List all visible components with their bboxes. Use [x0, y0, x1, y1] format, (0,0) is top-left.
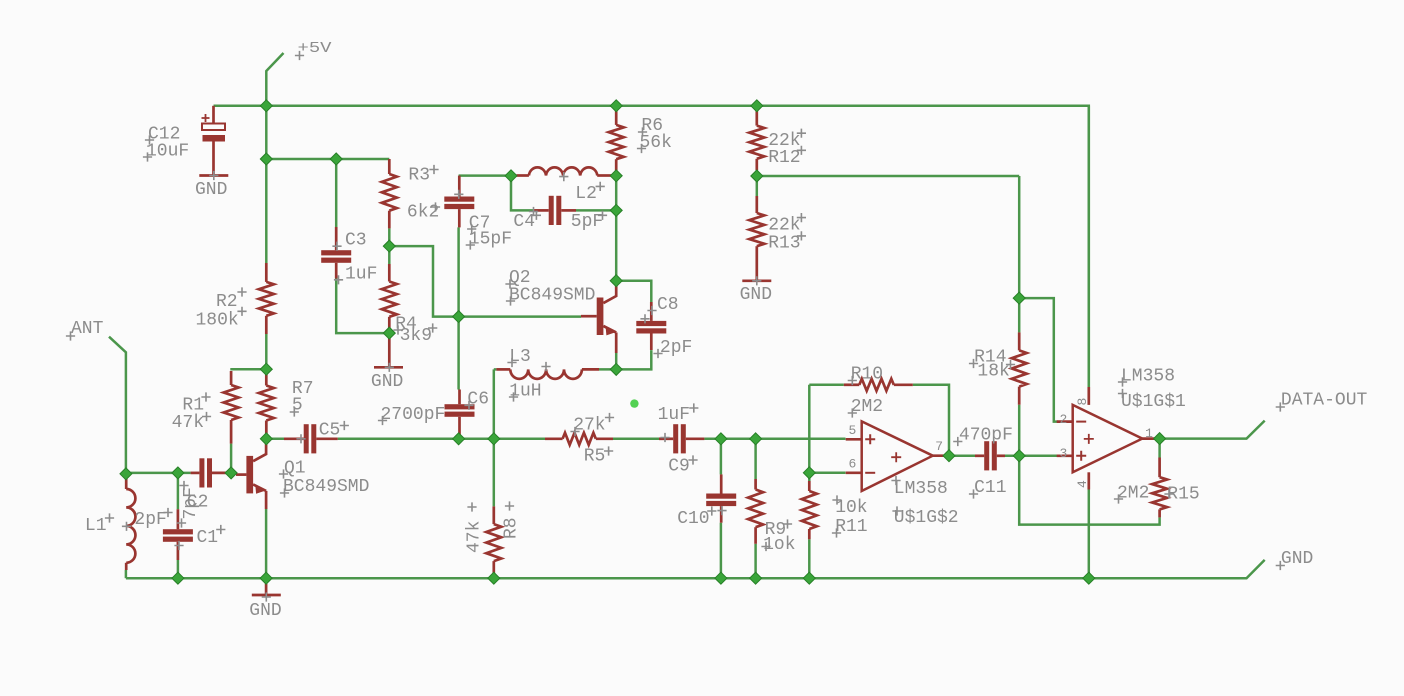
svg-text:Q1: Q1 — [284, 458, 306, 478]
svg-text:6k2: 6k2 — [407, 203, 439, 223]
svg-text:470pF: 470pF — [959, 426, 1013, 446]
svg-text:3: 3 — [1060, 446, 1068, 461]
svg-text:8: 8 — [1075, 398, 1090, 406]
svg-text:R13: R13 — [768, 234, 800, 254]
svg-text:C10: C10 — [677, 509, 709, 529]
svg-text:56k: 56k — [640, 133, 672, 153]
svg-text:47k: 47k — [464, 521, 484, 553]
svg-text:1uF: 1uF — [658, 405, 690, 425]
svg-text:27k: 27k — [573, 416, 605, 436]
svg-text:L2: L2 — [575, 184, 597, 204]
svg-text:47k: 47k — [172, 413, 204, 433]
svg-text:2: 2 — [1060, 412, 1068, 427]
svg-text:R3: R3 — [408, 166, 430, 186]
svg-text:22k: 22k — [768, 216, 800, 236]
svg-text:7: 7 — [935, 439, 943, 454]
svg-text:10uF: 10uF — [146, 142, 189, 162]
svg-text:18k: 18k — [977, 362, 1009, 382]
svg-text:C9: C9 — [668, 457, 690, 477]
svg-text:U$1G$2: U$1G$2 — [894, 508, 959, 528]
svg-text:10k: 10k — [835, 498, 867, 518]
svg-text:15pF: 15pF — [469, 229, 512, 249]
svg-text:R11: R11 — [835, 517, 867, 537]
svg-text:2700pF: 2700pF — [381, 405, 446, 425]
svg-text:C4: C4 — [513, 212, 535, 232]
svg-text:+5V: +5V — [298, 40, 332, 57]
svg-text:GND: GND — [195, 180, 227, 200]
svg-text:C8: C8 — [657, 295, 679, 315]
svg-text:C6: C6 — [467, 390, 489, 410]
svg-text:LM358: LM358 — [1121, 367, 1175, 387]
svg-text:1uF: 1uF — [345, 264, 377, 284]
svg-text:R10: R10 — [851, 365, 883, 385]
svg-text:5: 5 — [849, 423, 857, 438]
svg-text:L1: L1 — [85, 516, 107, 536]
svg-text:2pF: 2pF — [660, 338, 692, 358]
svg-text:2pF: 2pF — [134, 510, 166, 530]
svg-text:R8: R8 — [502, 517, 522, 539]
svg-text:ANT: ANT — [71, 319, 104, 339]
svg-text:GND: GND — [740, 285, 772, 305]
svg-text:C3: C3 — [345, 231, 367, 251]
svg-text:2M2: 2M2 — [1117, 484, 1149, 504]
svg-text:4: 4 — [1075, 480, 1090, 488]
svg-text:C11: C11 — [974, 478, 1006, 498]
svg-text:LM358: LM358 — [894, 479, 948, 499]
svg-text:DATA-OUT: DATA-OUT — [1281, 391, 1368, 411]
svg-text:BC849SMD: BC849SMD — [283, 477, 369, 497]
svg-text:3k9: 3k9 — [400, 326, 432, 346]
svg-text:GND: GND — [1281, 549, 1313, 569]
svg-text:1ok: 1ok — [763, 535, 795, 555]
svg-text:BC849SMD: BC849SMD — [509, 285, 595, 305]
svg-text:7pF: 7pF — [181, 487, 201, 519]
svg-text:2M2: 2M2 — [851, 397, 883, 417]
svg-text:6: 6 — [849, 457, 857, 472]
svg-text:1: 1 — [1145, 426, 1153, 441]
svg-text:R5: R5 — [584, 447, 606, 467]
svg-text:R12: R12 — [768, 148, 800, 168]
svg-text:R2: R2 — [216, 292, 238, 312]
svg-text:GND: GND — [371, 372, 403, 392]
svg-text:U$1G$1: U$1G$1 — [1121, 392, 1186, 412]
svg-text:C5: C5 — [319, 421, 341, 441]
svg-text:180k: 180k — [196, 311, 239, 331]
svg-text:GND: GND — [249, 601, 281, 621]
svg-text:C1: C1 — [197, 528, 219, 548]
